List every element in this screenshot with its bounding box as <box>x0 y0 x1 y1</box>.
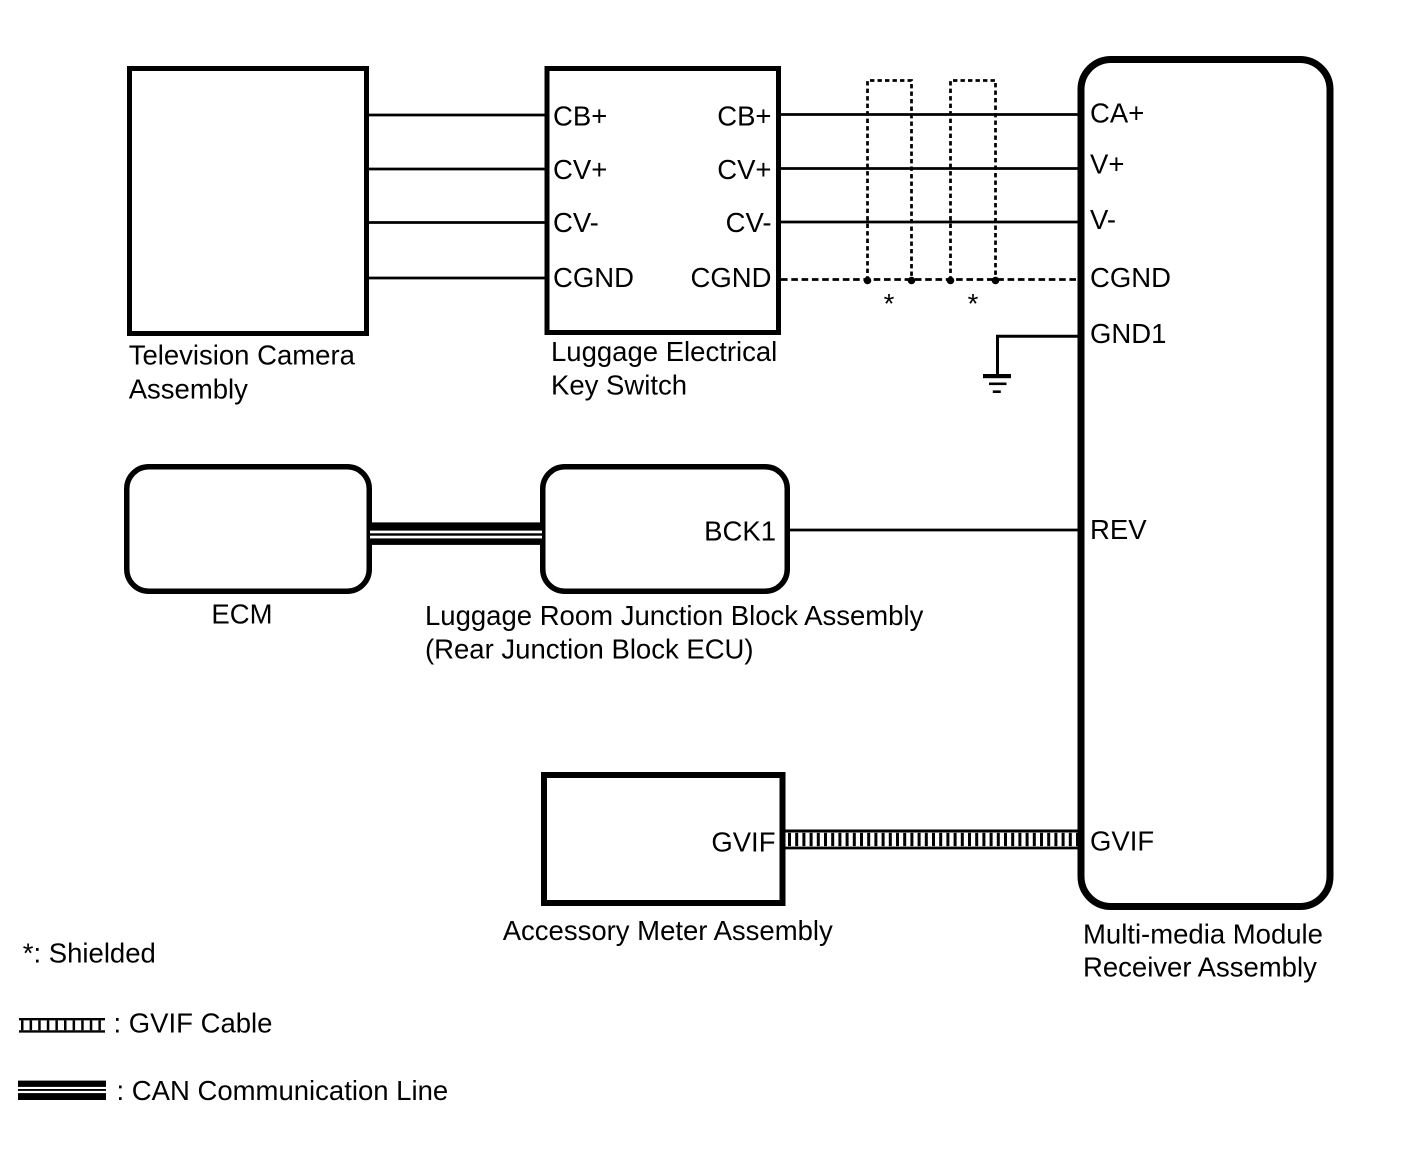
svg-text:*: Shielded: *: Shielded <box>23 938 156 969</box>
legend: GVIF cable symbol <box>19 1019 105 1031</box>
svg-text:Luggage Room Junction Block As: Luggage Room Junction Block Assembly <box>425 600 924 631</box>
svg-text:: GVIF Cable: : GVIF Cable <box>114 1008 273 1039</box>
Luggage Electrical Key Switch box <box>547 69 779 333</box>
svg-text:CV-: CV- <box>726 207 772 238</box>
GVIF cable accessory meter to receiver <box>785 831 1082 848</box>
svg-text:GVIF: GVIF <box>1090 825 1154 856</box>
svg-text:(Rear Junction Block ECU): (Rear Junction Block ECU) <box>425 634 754 665</box>
shield box 1 junction dot right <box>908 277 916 285</box>
svg-text:CV+: CV+ <box>553 154 607 185</box>
svg-text:CGND: CGND <box>553 262 634 293</box>
svg-text:Accessory Meter Assembly: Accessory Meter Assembly <box>503 915 833 946</box>
svg-text:V+: V+ <box>1090 148 1124 179</box>
svg-text:Luggage Electrical: Luggage Electrical <box>551 336 777 367</box>
wire CV- camera to switch <box>367 221 546 224</box>
wire CGND dashed switch to receiver <box>781 278 1082 281</box>
svg-text:GND1: GND1 <box>1090 318 1166 349</box>
svg-text:CB+: CB+ <box>553 101 607 132</box>
svg-text:Assembly: Assembly <box>129 373 248 404</box>
wire CB+ to CA+ switch to receiver <box>780 113 1083 116</box>
wire CV+ camera to switch <box>367 168 546 171</box>
svg-text:Television Camera: Television Camera <box>129 339 356 370</box>
shield box 1 (dashed) <box>868 81 912 281</box>
Multi-media Module Receiver Assembly box <box>1081 60 1330 907</box>
shield box 2 junction dot left <box>947 277 955 285</box>
svg-text:REV: REV <box>1090 514 1147 545</box>
svg-text:V-: V- <box>1090 204 1116 235</box>
svg-text:*: * <box>968 288 979 319</box>
Accessory Meter Assembly box <box>544 775 783 903</box>
Television Camera Assembly box <box>130 69 367 334</box>
wire CV+ to V+ switch to receiver <box>780 167 1083 170</box>
shield box 1 junction dot left <box>864 277 872 285</box>
svg-text:CGND: CGND <box>691 262 772 293</box>
svg-text:CGND: CGND <box>1090 262 1171 293</box>
svg-text:*: * <box>884 288 895 319</box>
svg-text:CV-: CV- <box>553 207 599 238</box>
svg-text:ECM: ECM <box>211 599 272 630</box>
svg-text:: CAN Communication Line: : CAN Communication Line <box>117 1075 449 1106</box>
svg-text:Key Switch: Key Switch <box>551 369 687 400</box>
ground symbol <box>983 374 1011 393</box>
svg-text:GVIF: GVIF <box>711 826 775 857</box>
wire CGND camera to switch <box>367 277 546 280</box>
shield box 2 (dashed) <box>951 81 996 281</box>
Luggage Room Junction Block box <box>543 467 788 592</box>
wire GND1 horizontal <box>996 335 1082 338</box>
svg-text:BCK1: BCK1 <box>704 516 776 547</box>
svg-text:CV+: CV+ <box>717 154 771 185</box>
wire BCK1 to REV <box>788 529 1082 532</box>
legend: CAN communication line symbol <box>18 1081 106 1100</box>
shield box 2 junction dot right <box>992 277 1000 285</box>
wire CV- to V- switch to receiver <box>780 221 1083 224</box>
CAN communication line ECM to junction block <box>370 522 542 545</box>
svg-text:Receiver Assembly: Receiver Assembly <box>1083 951 1317 982</box>
svg-text:Multi-media Module: Multi-media Module <box>1083 918 1323 949</box>
svg-text:CB+: CB+ <box>717 101 771 132</box>
wire CB+ camera to switch <box>367 114 546 117</box>
ECM box <box>127 467 370 592</box>
wire GND1 vertical <box>996 336 999 374</box>
svg-text:CA+: CA+ <box>1090 98 1144 129</box>
